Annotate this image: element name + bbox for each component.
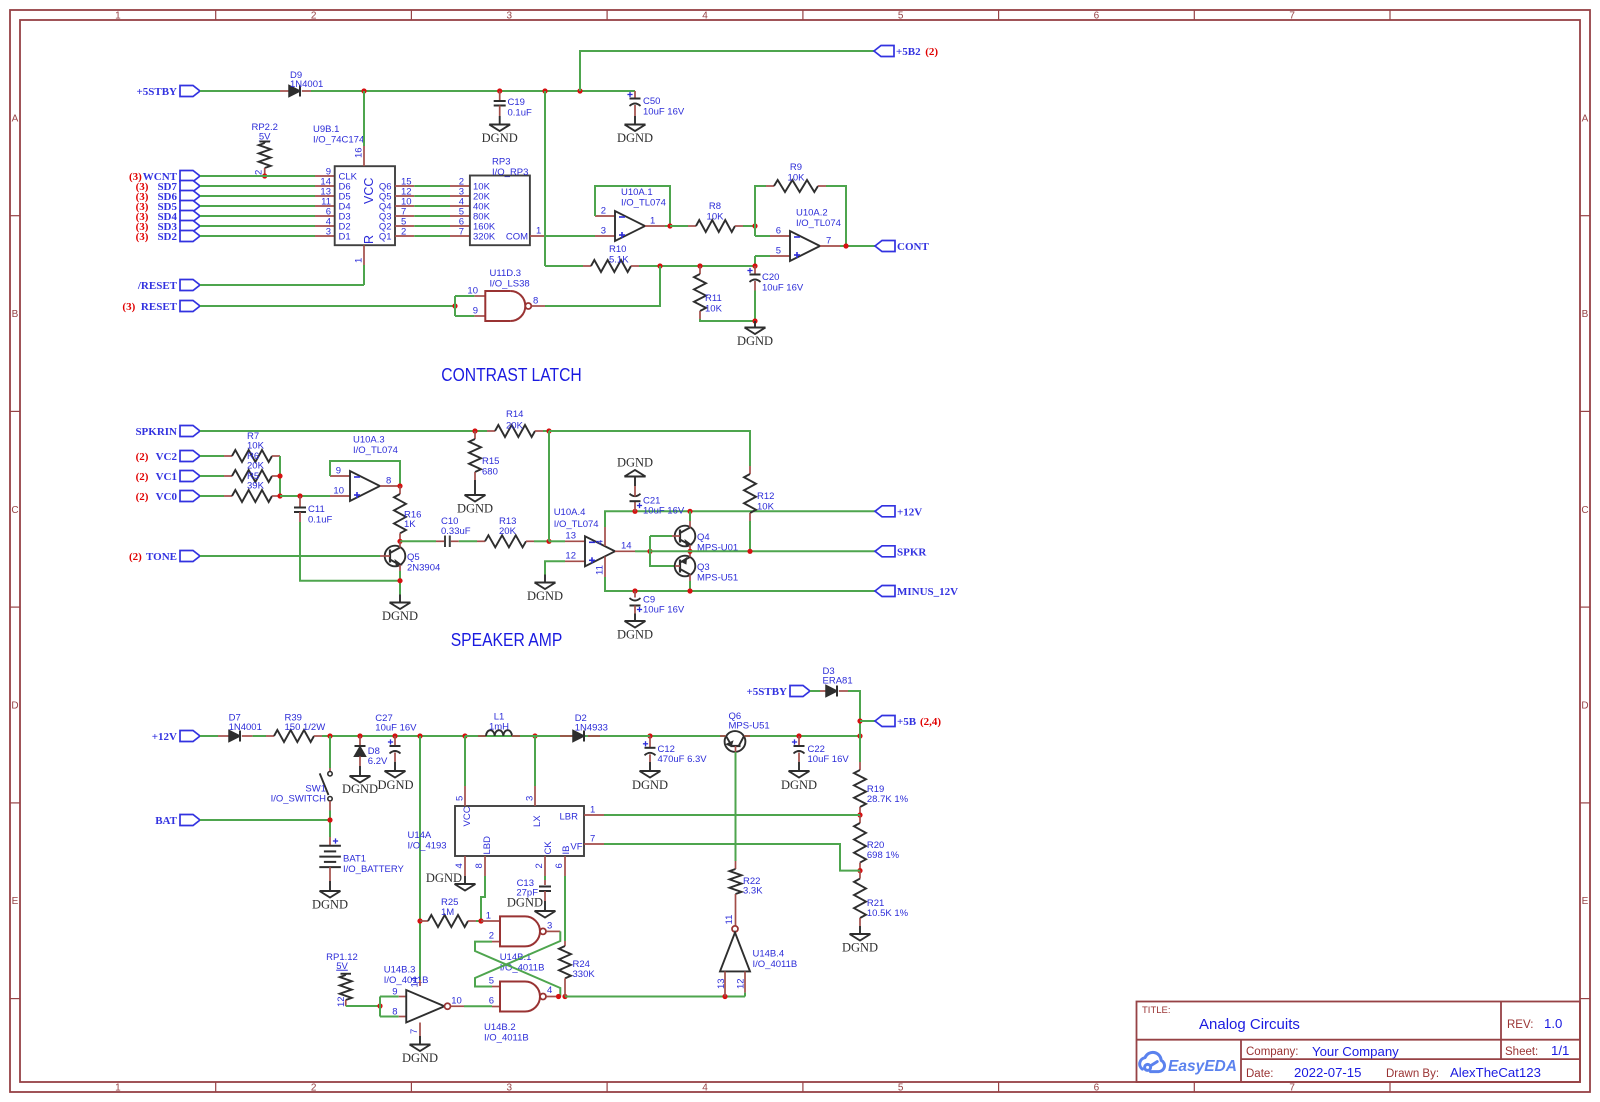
svg-text:7: 7 — [1289, 1083, 1295, 1094]
resistor R16 1K — [399, 486, 401, 494]
U9B.1 output pins — [395, 185, 414, 187]
junction +5B port — [857, 718, 862, 723]
svg-text:BAT: BAT — [155, 815, 177, 827]
svg-text:3: 3 — [507, 1083, 513, 1094]
wire +5STBY to D9 — [200, 90, 280, 92]
R22 3.3K — [735, 861, 737, 869]
svg-text:12: 12 — [736, 978, 747, 989]
wires ports to U9B inputs — [200, 175, 315, 177]
svg-text:TITLE:: TITLE: — [1142, 1005, 1171, 1016]
wire IB to R24 — [564, 876, 566, 941]
svg-text:DGND: DGND — [617, 456, 653, 470]
U9B.1 pin 1 R — [363, 245, 365, 265]
svg-text:ERA81: ERA81 — [823, 676, 853, 687]
wire BAT — [200, 819, 330, 821]
capacitor C20 10uF 16V — [754, 266, 756, 275]
diode D7 1N4001 — [218, 735, 229, 737]
feedback wire U10A.1 — [595, 186, 670, 226]
wire pin5 down to R10 row — [754, 256, 756, 266]
wire D9 to C50 along +5STBY rail — [311, 90, 635, 92]
svg-text:C20: C20 — [762, 272, 779, 283]
svg-text:1M: 1M — [441, 907, 454, 918]
svg-text:DGND: DGND — [737, 334, 773, 348]
wire R14 to R12 — [549, 431, 750, 466]
svg-text:6: 6 — [1094, 1083, 1100, 1094]
port SD2 — [180, 231, 200, 242]
svg-text:C11: C11 — [308, 504, 325, 515]
svg-text:E: E — [12, 896, 19, 907]
junction Q4/Q3 at SPKR row — [687, 549, 692, 554]
resistor R11 10K — [699, 266, 701, 274]
junction Q3 collector at MINUS row — [687, 588, 692, 593]
svg-text:VF: VF — [570, 842, 582, 853]
svg-text:U14B.4: U14B.4 — [753, 949, 785, 960]
ground DGND under R21 — [859, 926, 861, 934]
svg-text:20K: 20K — [247, 461, 265, 472]
svg-text:DGND: DGND — [617, 628, 653, 642]
svg-text:I/O_BATTERY: I/O_BATTERY — [343, 864, 405, 875]
svg-text:1/1: 1/1 — [1551, 1043, 1569, 1058]
svg-text:6.2V: 6.2V — [368, 756, 388, 767]
svg-text:6: 6 — [489, 996, 494, 1007]
ground DGND under BAT1 — [329, 881, 331, 891]
svg-text:Drawn By:: Drawn By: — [1386, 1068, 1439, 1080]
junction Q4 collector — [687, 509, 692, 514]
cross wire pin2 to output4 — [475, 942, 560, 997]
svg-text:VCC: VCC — [462, 806, 473, 826]
wire op-amp output to Q4/Q3 bases — [635, 550, 650, 552]
IC U14A I/O_4193 box — [455, 806, 584, 856]
svg-text:D: D — [11, 701, 18, 712]
svg-text:SD2: SD2 — [157, 231, 177, 243]
svg-text:10uF 16V: 10uF 16V — [762, 283, 804, 294]
wire R13 junction to op-amp pin13 — [549, 540, 565, 542]
svg-text:R9: R9 — [790, 162, 802, 173]
svg-text:7: 7 — [1289, 11, 1295, 22]
svg-text:1: 1 — [354, 258, 365, 263]
wire C11 bottom to Q5 emitter row — [300, 522, 400, 581]
resistor R25 1M — [417, 918, 422, 923]
ground DGND under C19 — [499, 116, 501, 125]
svg-text:11: 11 — [724, 915, 735, 925]
svg-text:10uF 16V: 10uF 16V — [375, 723, 417, 734]
junction RP2.2 to WCNT — [262, 173, 267, 178]
svg-text:7: 7 — [590, 834, 595, 845]
svg-text:R15: R15 — [482, 456, 499, 467]
ground DGND under D8 — [359, 766, 361, 776]
svg-text:(2,4): (2,4) — [920, 716, 941, 728]
LBR wire to R19/R20 junction — [604, 814, 860, 816]
svg-text:(3): (3) — [136, 231, 152, 243]
U14A pin 3 LX — [534, 786, 536, 806]
wire switch to BAT junction — [329, 811, 331, 838]
svg-text:10: 10 — [467, 286, 478, 297]
port SD5 — [180, 201, 200, 212]
junction VF row — [857, 868, 862, 873]
wire pin12 to DGND — [545, 561, 565, 574]
junction R10/R11 — [697, 263, 702, 268]
svg-text:U10A.2: U10A.2 — [796, 208, 828, 219]
svg-text:B: B — [12, 309, 19, 320]
svg-text:0.1uF: 0.1uF — [508, 108, 532, 119]
wire D3 to +5B column — [848, 691, 860, 736]
svg-text:DGND: DGND — [426, 871, 462, 885]
svg-text:470uF 6.3V: 470uF 6.3V — [658, 754, 708, 765]
junction U10A.2 output — [843, 243, 848, 248]
svg-text:U14B.3: U14B.3 — [384, 965, 416, 976]
wire +5STBY to D3 — [810, 690, 820, 692]
svg-text:2: 2 — [489, 931, 494, 942]
svg-text:A: A — [1582, 113, 1589, 124]
svg-text:9: 9 — [336, 466, 341, 477]
port /RESET — [180, 280, 200, 291]
svg-text:I/O_LS38: I/O_LS38 — [490, 279, 530, 290]
ground DGND under U14B.3 — [419, 1036, 421, 1045]
svg-text:1: 1 — [650, 216, 655, 227]
junction C9 — [632, 588, 637, 593]
port BAT — [180, 815, 200, 826]
svg-text:R14: R14 — [506, 409, 523, 420]
svg-text:5: 5 — [455, 796, 466, 801]
svg-text:10K: 10K — [247, 441, 265, 452]
svg-text:2: 2 — [534, 863, 545, 868]
resistor R24 330K — [564, 941, 566, 946]
svg-text:5: 5 — [898, 1083, 904, 1094]
U14A pin 5 VCC — [464, 786, 466, 806]
svg-text:8: 8 — [474, 863, 485, 868]
svg-text:10uF 16V: 10uF 16V — [643, 605, 685, 616]
ground DGND above C21 (inverted) — [634, 477, 636, 487]
ground DGND under C12 — [649, 762, 651, 771]
port VC0 — [180, 491, 200, 502]
svg-text:8: 8 — [386, 476, 391, 487]
svg-text:DGND: DGND — [342, 782, 378, 796]
U14A pin 6 IB — [564, 856, 566, 876]
svg-text:I/O_4011B: I/O_4011B — [384, 975, 429, 986]
MINUS_12V row wire — [635, 590, 875, 592]
svg-text:10K: 10K — [788, 173, 806, 184]
Q5 collector — [399, 541, 401, 547]
U9B.1 pin 16 VCC — [363, 146, 365, 166]
svg-text:I/O_TL074: I/O_TL074 — [554, 519, 599, 530]
svg-text:CONTRAST LATCH: CONTRAST LATCH — [441, 364, 582, 385]
svg-text:CK: CK — [543, 841, 554, 855]
svg-text:DGND: DGND — [377, 778, 413, 792]
wire joining R7/R6/R5 — [279, 456, 281, 496]
svg-text:D1: D1 — [339, 232, 351, 243]
svg-text:13: 13 — [565, 531, 576, 542]
capacitor C27 10uF 16V — [394, 736, 396, 746]
IC RP3 resistor pack box — [470, 176, 530, 246]
svg-text:+5STBY: +5STBY — [136, 86, 177, 98]
svg-text:2: 2 — [311, 11, 317, 22]
svg-text:1: 1 — [536, 226, 541, 237]
wire +5B column down through resistor chain — [859, 736, 861, 762]
svg-text:Q3: Q3 — [697, 562, 710, 573]
svg-text:R10: R10 — [609, 244, 626, 255]
junction R10/NAND output — [657, 263, 662, 268]
long wire +5STBY rail down to R10 — [544, 91, 546, 266]
svg-text:R12: R12 — [757, 491, 774, 502]
U10A.4 power pin 4 — [604, 527, 606, 546]
svg-text:2: 2 — [311, 1083, 317, 1094]
ground DGND under C27 — [394, 762, 396, 771]
svg-text:20K: 20K — [506, 421, 524, 432]
long wire rail down to R25/U14B.3 — [419, 736, 421, 980]
svg-text:R11: R11 — [705, 293, 722, 304]
U14B.3 triangle — [399, 996, 407, 998]
svg-text:E: E — [1582, 896, 1589, 907]
svg-text:Your Company: Your Company — [1312, 1044, 1399, 1059]
junction R15 — [472, 428, 477, 433]
U14A pin 4 DGND — [464, 856, 466, 876]
RP3 pin 1 COM — [530, 235, 546, 237]
inductor L1 1mH — [465, 735, 478, 737]
svg-text:I/O_RP3: I/O_RP3 — [492, 167, 528, 178]
U14B.3 pin 14 power — [419, 980, 421, 986]
junction LBR row — [857, 812, 862, 817]
resistor R6 20K — [200, 475, 224, 477]
U14A pin 7 VF — [584, 843, 604, 845]
junction R13/pin13 column — [546, 539, 551, 544]
svg-text:20K: 20K — [499, 526, 517, 537]
svg-text:VC0: VC0 — [156, 491, 178, 503]
svg-text:14: 14 — [621, 541, 632, 552]
svg-text:11: 11 — [595, 565, 606, 575]
svg-text:4: 4 — [702, 1083, 708, 1094]
resistor R8 10K — [670, 225, 688, 227]
svg-text:DGND: DGND — [617, 131, 653, 145]
svg-text:330K: 330K — [573, 969, 596, 980]
svg-text:VCC: VCC — [362, 178, 376, 204]
wire up to R14 junction — [548, 431, 550, 541]
svg-text:8: 8 — [533, 296, 538, 307]
svg-text:DGND: DGND — [527, 589, 563, 603]
+12V rail wire — [635, 510, 875, 512]
wire LBD to R25/pin1 — [481, 876, 485, 921]
svg-text:5: 5 — [898, 11, 904, 22]
wire up to +5B2 port — [580, 51, 874, 91]
ground DGND at U10A.4 +input — [544, 575, 546, 583]
resistor R10 5.1K — [545, 265, 583, 267]
svg-text:10: 10 — [451, 996, 462, 1007]
port CONT — [875, 241, 895, 252]
junction R16/C10/Q5 — [397, 539, 402, 544]
svg-text:28.7K 1%: 28.7K 1% — [867, 794, 909, 805]
svg-text:U14B.2: U14B.2 — [484, 1022, 516, 1033]
svg-text:10uF 16V: 10uF 16V — [808, 754, 850, 765]
svg-text:1N4933: 1N4933 — [575, 723, 608, 734]
junction C20/R11 bottom — [752, 318, 757, 323]
svg-text:LBD: LBD — [482, 836, 493, 855]
port +5B2 — [874, 46, 894, 57]
port +5B — [875, 716, 895, 727]
svg-text:5.1K: 5.1K — [609, 255, 629, 266]
svg-text:U10A.3: U10A.3 — [353, 435, 385, 446]
port SD7 — [180, 181, 200, 192]
svg-text:MPS-U51: MPS-U51 — [729, 721, 770, 732]
svg-text:9: 9 — [473, 306, 478, 317]
svg-text:3.3K: 3.3K — [743, 886, 763, 897]
svg-text:A: A — [12, 113, 19, 124]
svg-text:698 1%: 698 1% — [867, 850, 900, 861]
svg-text:DGND: DGND — [312, 898, 348, 912]
ground DGND under R15 — [474, 480, 476, 495]
svg-text:10: 10 — [333, 486, 344, 497]
wire NAND output to R10 row — [545, 266, 660, 306]
capacitor C10 0.33uF — [436, 540, 444, 542]
svg-text:B: B — [1582, 309, 1589, 320]
svg-text:DGND: DGND — [781, 778, 817, 792]
junction U10A.3 output — [397, 483, 402, 488]
svg-text:1: 1 — [115, 11, 121, 22]
port RESET — [180, 301, 200, 312]
svg-text:COM: COM — [506, 232, 528, 243]
wire VCC pin to rail — [363, 91, 365, 146]
svg-text:3: 3 — [326, 227, 331, 238]
svg-text:I/O_74C174: I/O_74C174 — [313, 135, 364, 146]
resistor R13 20K — [477, 540, 485, 542]
svg-text:5: 5 — [489, 976, 494, 987]
svg-text:VC2: VC2 — [156, 451, 178, 463]
capacitor C9 10uF 16V — [634, 591, 636, 598]
svg-text:10K: 10K — [757, 502, 775, 513]
svg-text:2: 2 — [601, 206, 606, 217]
svg-text:DGND: DGND — [402, 1051, 438, 1065]
battery BAT1 I/O_BATTERY — [329, 837, 331, 846]
svg-text:2N3904: 2N3904 — [407, 563, 440, 574]
svg-text:(2): (2) — [129, 551, 145, 563]
svg-text:+5STBY: +5STBY — [746, 686, 787, 698]
svg-text:SPKR: SPKR — [897, 546, 927, 558]
U14A pin 8 LBD — [484, 856, 486, 876]
capacitor C21 10uF 16V — [632, 509, 637, 514]
svg-text:R: R — [362, 235, 376, 244]
svg-text:680: 680 — [482, 467, 498, 478]
svg-text:(2): (2) — [136, 451, 152, 463]
svg-text:Q1: Q1 — [379, 232, 392, 243]
svg-text:(2): (2) — [136, 471, 152, 483]
junction U14B.2 output — [556, 994, 561, 999]
junction at C19 — [497, 88, 502, 93]
resistor R21 10.5K 1% — [859, 871, 861, 879]
svg-text:2: 2 — [401, 227, 406, 238]
svg-text:LX: LX — [532, 815, 543, 827]
svg-text:(3): (3) — [122, 301, 138, 313]
wire CK to C13 — [544, 876, 546, 880]
port +5STBY — [180, 86, 200, 97]
svg-text:C19: C19 — [508, 97, 525, 108]
EasyEDA logo — [1140, 1052, 1165, 1071]
svg-text:DGND: DGND — [457, 502, 493, 516]
U14B.4 triangle with bubble — [732, 926, 738, 932]
ground DGND under Q5 — [399, 595, 401, 603]
junction BAT/switch/battery — [327, 817, 332, 822]
capacitor C22 10uF 16V — [798, 736, 800, 746]
U9B.1 input pins — [315, 175, 335, 177]
svg-text:1: 1 — [115, 1083, 121, 1094]
port +12V — [875, 506, 895, 517]
svg-text:U11D.3: U11D.3 — [490, 268, 522, 279]
U10A.4 power pin 11 — [604, 557, 606, 578]
svg-text:2022-07-15: 2022-07-15 — [1294, 1065, 1361, 1080]
port SD4 — [180, 211, 200, 222]
svg-text:3: 3 — [547, 921, 552, 932]
svg-text:7: 7 — [459, 227, 464, 238]
junction at R10 column — [542, 88, 547, 93]
port VC2 — [180, 451, 200, 462]
wire R pin to /RESET — [363, 265, 365, 285]
junction R12 bottom — [747, 549, 752, 554]
port MINUS_12V — [875, 586, 895, 597]
svg-text:DGND: DGND — [632, 778, 668, 792]
svg-text:1: 1 — [590, 805, 595, 816]
output row wire to U14B.4 pins — [565, 996, 745, 998]
svg-text:10uF 16V: 10uF 16V — [643, 107, 685, 118]
resistor R12 10K — [749, 466, 751, 474]
svg-text:REV:: REV: — [1507, 1019, 1533, 1031]
switch SW1 I/O_SWITCH — [329, 736, 331, 768]
wire to R9 and pin6 — [755, 186, 766, 236]
wire RP1.12 to U14B.3 inputs — [346, 1005, 380, 1007]
svg-text:1N4001: 1N4001 — [290, 79, 323, 90]
svg-text:I/O_TL074: I/O_TL074 — [796, 218, 841, 229]
port +5STBY bottom — [790, 686, 810, 697]
svg-text:12: 12 — [336, 996, 347, 1007]
svg-text:U10A.4: U10A.4 — [554, 507, 586, 518]
svg-text:BAT1: BAT1 — [343, 854, 366, 865]
capacitor C19 0.1uF — [499, 91, 501, 101]
svg-text:EasyEDA: EasyEDA — [1168, 1058, 1237, 1075]
svg-text:10.5K 1%: 10.5K 1% — [867, 908, 909, 919]
zener diode D8 6.2V — [359, 736, 361, 746]
port SPKRIN — [180, 426, 200, 437]
svg-text:SPEAKER AMP: SPEAKER AMP — [451, 629, 563, 650]
svg-text:150 1/2W: 150 1/2W — [285, 722, 326, 733]
port SD6 — [180, 191, 200, 202]
RP3 input pins — [450, 185, 470, 187]
svg-text:10K: 10K — [705, 304, 723, 315]
svg-text:6: 6 — [1094, 11, 1100, 22]
junction output node — [647, 549, 652, 554]
svg-text:1mH: 1mH — [489, 722, 509, 733]
svg-text:I/O_TL074: I/O_TL074 — [353, 445, 398, 456]
junction R25/LBD/pin1 — [478, 918, 483, 923]
svg-text:U9B.1: U9B.1 — [313, 124, 339, 135]
svg-text:/RESET: /RESET — [137, 280, 178, 292]
svg-text:4: 4 — [547, 985, 552, 996]
svg-text:14: 14 — [410, 977, 421, 988]
U14A pin 2 CK — [544, 856, 546, 876]
diode D2 1N4933 — [535, 735, 560, 737]
svg-text:RESET: RESET — [141, 301, 178, 313]
svg-text:Q5: Q5 — [407, 552, 420, 563]
ground DGND under C20 — [754, 321, 756, 328]
VF wire to R20/R21 junction — [604, 844, 860, 871]
wire C10 to R13 — [459, 540, 477, 542]
port SPKR — [875, 546, 895, 557]
svg-text:C: C — [11, 505, 18, 516]
svg-text:CONT: CONT — [897, 241, 929, 253]
diode D9 1N4001 — [280, 90, 289, 92]
svg-text:7: 7 — [826, 236, 831, 247]
svg-text:TONE: TONE — [146, 551, 177, 563]
port SD3 — [180, 221, 200, 232]
svg-text:DGND: DGND — [482, 131, 518, 145]
svg-text:C: C — [1581, 505, 1588, 516]
resistor R5 39K — [200, 495, 224, 497]
capacitor C13 27pF — [544, 880, 546, 885]
